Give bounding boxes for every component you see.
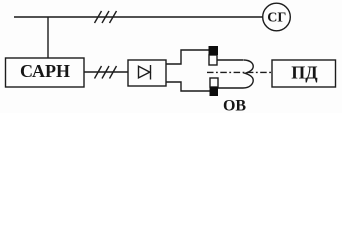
svg-text:ОВ: ОВ (223, 98, 246, 114)
svg-text:ПД: ПД (291, 63, 318, 83)
svg-text:СГ: СГ (267, 11, 286, 26)
svg-text:САРН: САРН (20, 61, 70, 81)
